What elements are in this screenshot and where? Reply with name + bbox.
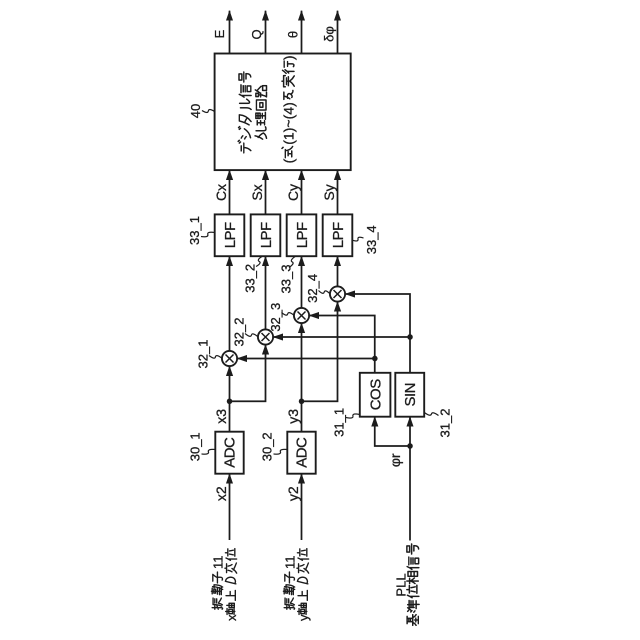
- input label vibrator-11 x-axis displacement: [210, 549, 239, 621]
- wire Cx from LPF 33_1 to DSP box 40: [229, 170, 231, 214]
- multiplier 32_1: [222, 351, 237, 366]
- wire phi-r branch to COS 31_1: [375, 417, 410, 446]
- svg-text:32_4: 32_4: [305, 274, 320, 303]
- svg-text:30_1: 30_1: [188, 432, 203, 461]
- junction phi-r: [407, 443, 413, 449]
- svg-text:11: 11: [210, 556, 225, 570]
- svg-text:): ): [280, 55, 296, 60]
- svg-text:30_2: 30_2: [260, 432, 275, 461]
- junction SIN output: [407, 334, 413, 340]
- svg-text:40: 40: [188, 104, 203, 118]
- wire Sx from LPF 33_2 to DSP box 40: [265, 170, 267, 214]
- SIN 31_2: [395, 373, 424, 417]
- reference numeral 31_1: [332, 408, 360, 437]
- svg-text:ADC: ADC: [294, 437, 311, 468]
- svg-text:y2: y2: [285, 486, 301, 501]
- wire phi-r input to SIN 31_2: [409, 417, 411, 541]
- svg-text:~: ~: [280, 119, 296, 127]
- svg-text:33_3: 33_3: [279, 265, 294, 294]
- wire multiplier 32_4 to LPF 33_4: [337, 256, 339, 286]
- svg-text:LPF: LPF: [222, 222, 239, 248]
- svg-text:φr: φr: [387, 453, 403, 467]
- rotated patent figure: [187, 11, 453, 626]
- svg-text:PLL: PLL: [394, 573, 409, 596]
- svg-text:LPF: LPF: [294, 222, 311, 248]
- svg-text:Cx: Cx: [213, 184, 229, 201]
- svg-text:LPF: LPF: [258, 222, 275, 248]
- svg-text:33_4: 33_4: [364, 225, 379, 254]
- svg-text:): ): [280, 102, 296, 107]
- svg-text:33_2: 33_2: [243, 264, 258, 293]
- wire x3 branch to multiplier 32_2: [230, 345, 266, 402]
- wire multiplier 32_1 to LPF 33_1: [229, 256, 231, 351]
- svg-text:32_2: 32_2: [232, 318, 247, 347]
- svg-text:31_1: 31_1: [332, 408, 347, 437]
- reference numeral 40: [188, 104, 215, 118]
- reference numeral 30_1: [188, 432, 216, 461]
- wire output E: [229, 11, 231, 54]
- wire Cy from LPF 33_3 to DSP box 40: [301, 170, 303, 214]
- svg-text:Sy: Sy: [321, 184, 337, 200]
- svg-text:Cy: Cy: [285, 184, 301, 201]
- wire multiplier 32_3 to LPF 33_3: [301, 256, 303, 308]
- reference numeral 32_2: [232, 318, 258, 347]
- svg-text:x2: x2: [213, 486, 229, 501]
- wire Sy from LPF 33_4 to DSP box 40: [337, 170, 339, 214]
- wire SIN branch to multiplier 32_4: [345, 294, 410, 337]
- reference numeral 31_2: [424, 409, 452, 438]
- wire multiplier 32_2 to LPF 33_2: [265, 256, 267, 329]
- svg-text:Q: Q: [249, 29, 264, 39]
- reference numeral 33_3: [279, 256, 296, 293]
- wire x3 from ADC 30_1 to multiplier 32_1: [229, 366, 231, 432]
- svg-text:y: y: [296, 614, 311, 621]
- LPF 33_3: [287, 214, 317, 256]
- svg-text:32_1: 32_1: [196, 340, 211, 369]
- multiplier 32_3: [294, 308, 309, 323]
- svg-text:31_2: 31_2: [438, 409, 453, 438]
- wire y2 input to ADC 30_2: [301, 474, 303, 540]
- input label vibrator-11 y-axis displacement: [282, 549, 311, 621]
- ADC 30_2: [287, 432, 315, 474]
- wire y3 from ADC 30_2 to multiplier 32_3: [301, 323, 303, 432]
- reference numeral 32_1: [196, 340, 222, 369]
- reference numeral 32_3: [268, 303, 294, 332]
- junction COS output: [372, 356, 378, 362]
- reference numeral 33_1: [187, 216, 215, 245]
- LPF 33_1: [215, 214, 245, 256]
- svg-text:y3: y3: [285, 409, 301, 424]
- svg-text:δφ: δφ: [322, 26, 337, 42]
- COS 31_1: [360, 373, 391, 417]
- svg-text:11: 11: [282, 556, 297, 570]
- svg-text:x3: x3: [213, 409, 229, 424]
- svg-text:32_3: 32_3: [268, 303, 283, 332]
- junction x3: [227, 399, 233, 405]
- junction y3: [299, 399, 305, 405]
- wire COS branch to multiplier 32_3: [309, 316, 375, 359]
- wire output Q: [265, 11, 267, 54]
- multiplier 32_4: [330, 286, 345, 301]
- LPF 33_4: [323, 214, 353, 256]
- reference numeral 33_4: [353, 225, 379, 254]
- LPF 33_2: [251, 214, 281, 256]
- wire y3 branch to multiplier 32_4: [302, 302, 338, 402]
- svg-text:x: x: [224, 614, 239, 621]
- input label PLL reference phase signal: [394, 544, 420, 625]
- multiplier 32_2: [258, 329, 273, 344]
- svg-text:LPF: LPF: [330, 222, 347, 248]
- wire output theta: [301, 11, 303, 54]
- svg-text:ADC: ADC: [222, 437, 239, 468]
- reference numeral 30_2: [260, 432, 288, 461]
- DSP box 40 digital signal processing circuit: [215, 54, 351, 171]
- ADC 30_1: [215, 432, 243, 474]
- reference numeral 32_4: [305, 274, 330, 303]
- reference numeral 33_2: [243, 256, 263, 293]
- wire COS output to multiplier 32_1: [237, 359, 375, 373]
- svg-text:E: E: [212, 29, 227, 38]
- svg-text:1: 1: [280, 132, 296, 140]
- svg-text:33_1: 33_1: [187, 216, 202, 245]
- svg-text:Sx: Sx: [249, 184, 265, 200]
- wire x2 input to ADC 30_1: [229, 474, 231, 540]
- wire SIN output to multiplier 32_2: [273, 337, 410, 373]
- svg-text:θ: θ: [286, 31, 301, 38]
- svg-text:SIN: SIN: [402, 383, 419, 407]
- svg-text:(: (: [280, 158, 296, 163]
- svg-text:COS: COS: [367, 379, 384, 411]
- wire output delta-phi: [337, 11, 339, 54]
- svg-text:4: 4: [280, 107, 296, 115]
